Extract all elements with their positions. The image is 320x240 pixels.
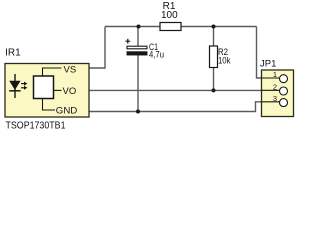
pin VS [43, 68, 62, 76]
svg-text:2: 2 [273, 82, 277, 91]
junction dot R2/rail [212, 25, 216, 29]
pin GND [43, 99, 56, 111]
junction dot C1/rail [137, 25, 141, 29]
resistor R1 [160, 23, 181, 31]
pin 2 [262, 89, 280, 91]
wire: C1 top lead [137, 27, 139, 47]
arrows [21, 83, 24, 85]
wire: VO line [89, 89, 262, 91]
photodiode [14, 74, 16, 98]
svg-text:100: 100 [161, 10, 178, 21]
capacitor C1 [125, 39, 164, 61]
svg-text:IR1: IR1 [5, 47, 21, 58]
wire: R2 top lead [213, 27, 215, 47]
wire: R2 bottom lead [213, 68, 215, 91]
svg-text:4,7u: 4,7u [149, 50, 164, 61]
IR receiver IR1 [5, 47, 89, 131]
pin 3 [262, 101, 280, 103]
junction dot C1/GND [136, 110, 140, 114]
svg-text:JP1: JP1 [260, 58, 276, 69]
wire: top supply rail [105, 26, 257, 28]
svg-text:1: 1 [273, 70, 277, 79]
svg-text:3: 3 [273, 94, 277, 103]
resistor R2 [210, 46, 218, 68]
svg-text:VS: VS [64, 64, 77, 75]
connector JP1 [260, 58, 294, 116]
wire: rail down to JP1 pin1 [257, 27, 262, 79]
pin VO [54, 89, 62, 91]
wire: C1 bottom lead [137, 55, 139, 112]
svg-text:TSOP1730TB1: TSOP1730TB1 [6, 120, 66, 131]
junction dot R2/VO [212, 88, 216, 92]
svg-text:10k: 10k [218, 56, 231, 67]
pin 1 [262, 77, 280, 79]
wire: VS elbow from IR1 to top rail [89, 27, 105, 69]
inner box [34, 76, 54, 99]
wire: GND line with jog up to JP1 pin3 [89, 102, 262, 112]
svg-text:VO: VO [63, 86, 77, 97]
svg-text:GND: GND [56, 105, 78, 116]
